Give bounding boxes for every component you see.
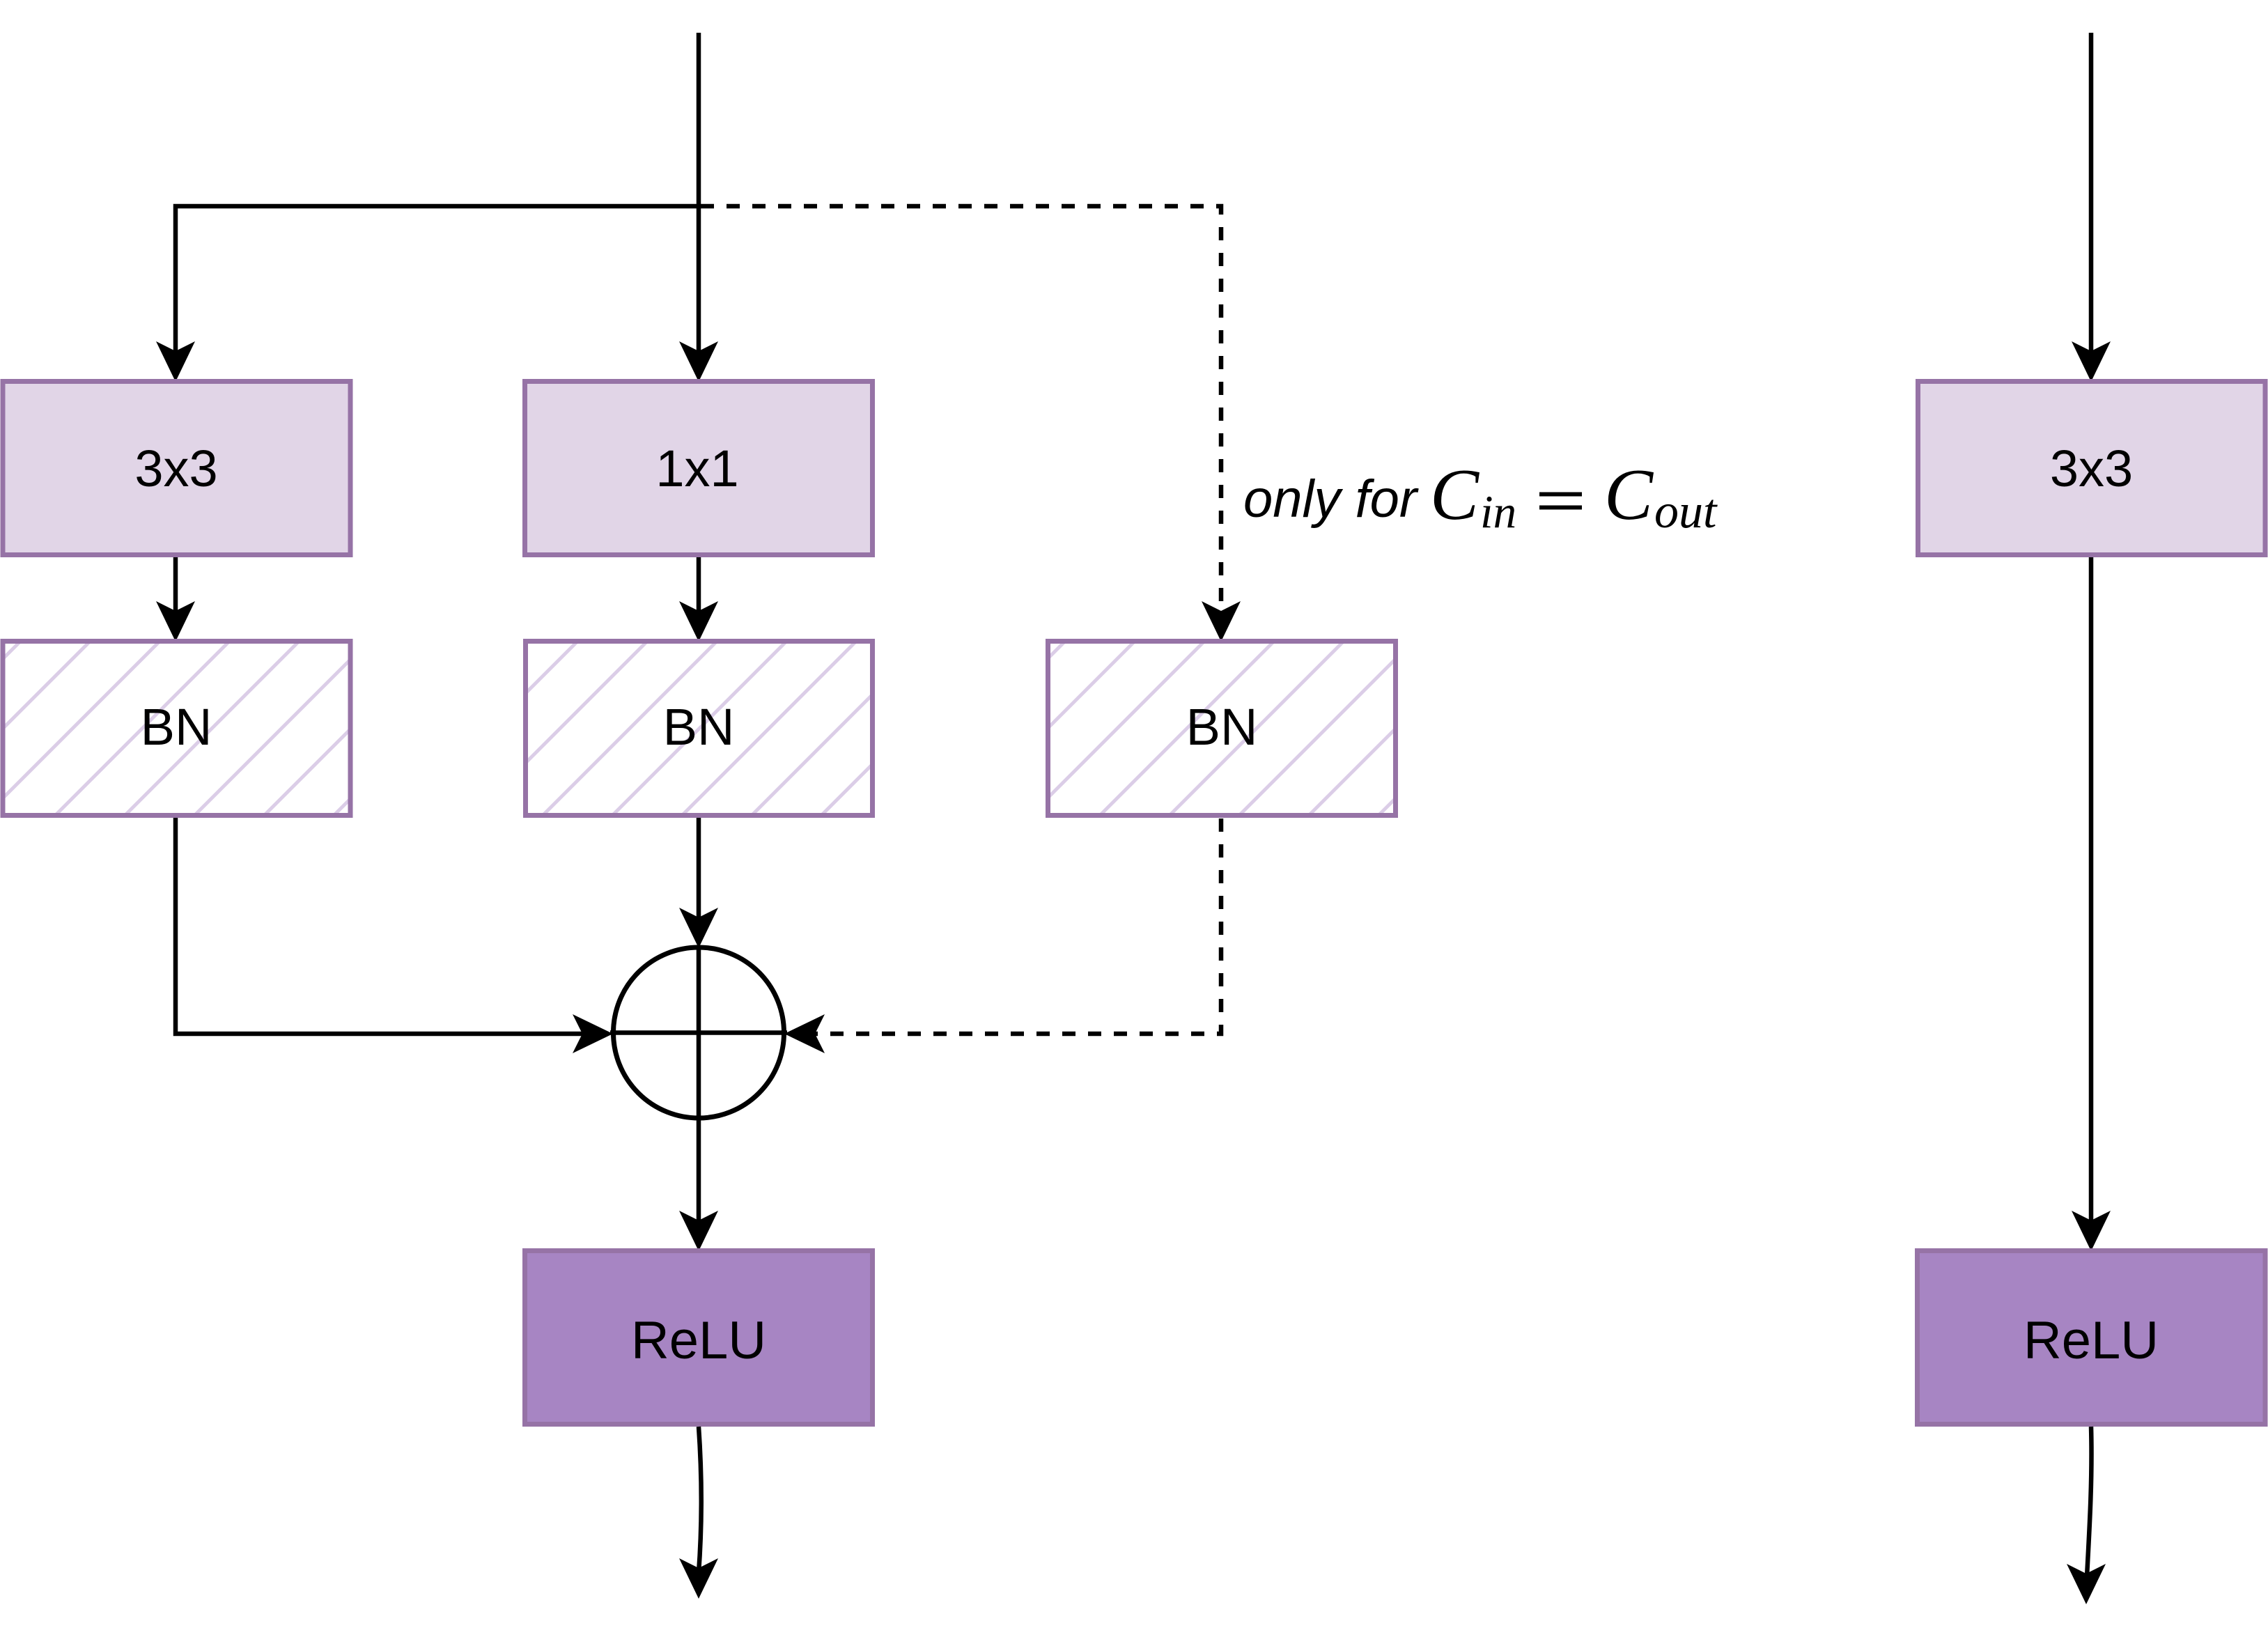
- svg-text:C: C: [1604, 453, 1654, 535]
- node: ReLU box (right block): [1918, 1251, 2266, 1425]
- wire: 3x3 conv down to ReLU (right block): [2089, 557, 2094, 1237]
- arrowhead into adder left: [573, 1014, 613, 1053]
- arrowhead into left BN: [156, 601, 195, 642]
- arrowhead into ReLU (left block): [679, 1211, 718, 1251]
- svg-text:1x1: 1x1: [655, 440, 738, 497]
- arrowhead into 3x3 conv box: [156, 341, 195, 382]
- adder horizontal bar: [610, 1030, 787, 1035]
- wire: dashed identity branch (only for Cin=Cout): [701, 206, 1221, 628]
- adder vertical bar and wire down to ReLU: [697, 947, 701, 1237]
- wire: output arrow (left block): [699, 1427, 701, 1573]
- node: 3x3 conv box (right block): [1918, 382, 2266, 555]
- wire: middle BN down into adder top: [697, 818, 701, 934]
- wire: 1x1 conv to BN: [697, 557, 701, 628]
- wire: output arrow (right block): [2087, 1427, 2092, 1576]
- arrowhead into adder right: [784, 1014, 825, 1053]
- svg-text:3x3: 3x3: [134, 440, 217, 497]
- svg-text:ReLU: ReLU: [2024, 1311, 2159, 1370]
- wire: dashed identity BN down and left into adder: [798, 818, 1221, 1034]
- node: 3x3 conv box (left block): [3, 382, 350, 555]
- arrowhead into identity BN box: [1202, 601, 1241, 642]
- wire: main input vertical line (left block): [697, 33, 701, 368]
- wire: 3x3 conv to BN: [173, 557, 178, 628]
- node: 1x1 conv box: [525, 382, 873, 555]
- wire: horizontal branch to 3x3 path: [176, 206, 699, 368]
- wire: main input vertical line (right block): [2089, 33, 2094, 368]
- arrowhead output (right block): [2067, 1564, 2106, 1604]
- svg-text:ReLU: ReLU: [631, 1311, 766, 1370]
- node: BN box right / identity BN (hatched): [1048, 642, 1396, 816]
- node: adder circle (circled plus): [614, 947, 784, 1118]
- node: ReLU box (left block): [525, 1251, 873, 1425]
- svg-text:out: out: [1654, 485, 1718, 538]
- arrowhead output (left block): [679, 1558, 718, 1599]
- svg-text:BN: BN: [663, 698, 735, 756]
- svg-text:3x3: 3x3: [2050, 440, 2133, 497]
- node: BN box left (hatched): [3, 642, 350, 816]
- svg-text:BN: BN: [1186, 698, 1258, 756]
- arrowhead into 3x3 conv box (right block): [2072, 341, 2111, 382]
- svg-text:C: C: [1430, 453, 1480, 535]
- arrowhead into middle BN: [679, 601, 718, 642]
- wire: left BN down and right into adder: [176, 818, 599, 1034]
- node: BN box middle (hatched): [526, 642, 873, 816]
- svg-text:only for: only for: [1243, 470, 1419, 529]
- arrowhead into ReLU (right block): [2072, 1211, 2111, 1251]
- arrowhead into adder top: [679, 908, 718, 948]
- svg-text:BN: BN: [141, 698, 212, 756]
- svg-text:in: in: [1480, 486, 1516, 538]
- arrowhead into 1x1 conv box: [679, 341, 718, 382]
